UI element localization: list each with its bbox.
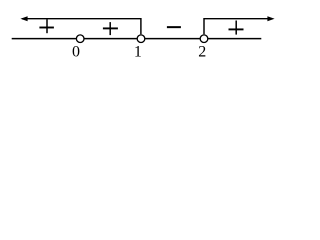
- plus sign A: [39, 19, 54, 33]
- left arrowhead: [20, 16, 27, 21]
- plus sign B: [103, 22, 118, 35]
- wire: positive interval segment left of 1: [22, 19, 141, 35]
- right arrowhead: [267, 16, 274, 21]
- svg-text:1: 1: [134, 44, 142, 61]
- open point at 0: [76, 35, 84, 43]
- svg-text:2: 2: [198, 44, 206, 61]
- open point at 2: [200, 35, 208, 43]
- number line: [12, 38, 262, 40]
- plus sign C: [229, 21, 244, 35]
- minus sign: [167, 26, 181, 28]
- svg-text:0: 0: [72, 44, 80, 61]
- wire: positive interval segment right of 2: [204, 19, 268, 35]
- open point at 1: [137, 35, 145, 43]
